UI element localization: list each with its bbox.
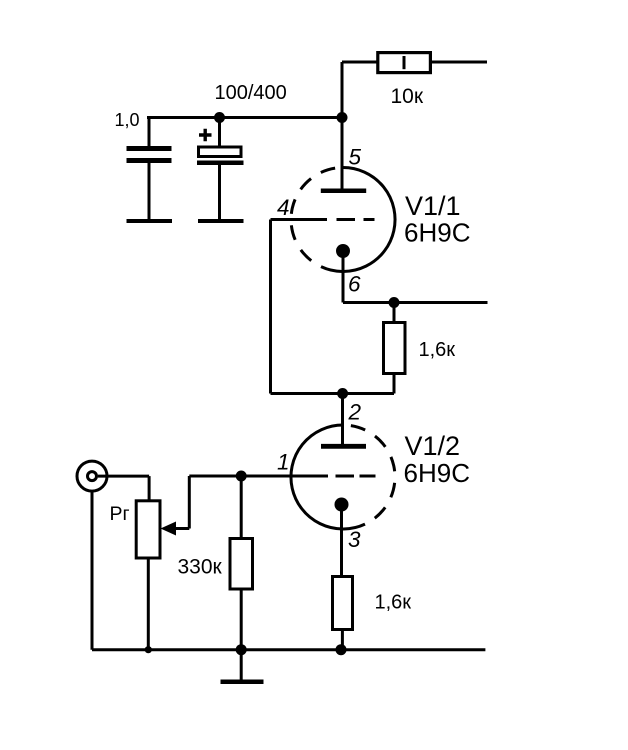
wire anode stem V1/1 pin 5 (341, 118, 344, 191)
node cathode bus / R2 (389, 297, 400, 308)
svg-text:1,0: 1,0 (115, 110, 140, 130)
tube V1/1 6Н9С (277, 145, 470, 297)
wire C2 top lead (218, 118, 221, 149)
svg-text:6Н9С: 6Н9С (404, 218, 470, 248)
wire R2 top lead (393, 303, 396, 323)
capacitor C2 100/400 electrolytic (197, 82, 287, 223)
wire grid-1 horizontal (189, 475, 328, 478)
wire 10k left lead (342, 61, 378, 64)
svg-text:3: 3 (348, 527, 361, 552)
svg-text:1,6к: 1,6к (375, 592, 412, 614)
node grid-1 / R3 (236, 471, 247, 482)
wire wiper horizontal (174, 527, 189, 530)
capacitor C1 1,0 (115, 110, 173, 223)
svg-text:2: 2 (348, 400, 362, 425)
node top bus / anode riser (337, 112, 348, 123)
resistor R4 1,6к (333, 577, 412, 630)
node ground / pot (145, 646, 152, 653)
tube V1/2 6Н9С (277, 400, 470, 553)
wire 10k right lead (431, 61, 488, 64)
svg-text:Рг: Рг (110, 503, 130, 525)
wire R3 top lead (240, 476, 243, 539)
svg-text:5: 5 (349, 145, 362, 170)
input connector (77, 461, 107, 491)
wire C1 top lead (148, 118, 151, 147)
node top bus / C2 (214, 112, 225, 123)
wire pot top lead (148, 476, 151, 501)
wire interstage horizontal (271, 392, 395, 395)
wire grid-4 horizontal (271, 218, 328, 221)
wire anode stem V1/2 pin 2 (341, 394, 344, 446)
wire ground bus (92, 648, 485, 651)
resistor R2 1,6к (384, 323, 456, 374)
wire R2 bottom lead (393, 374, 396, 394)
svg-text:330к: 330к (178, 556, 223, 579)
wire C1 bottom lead (148, 163, 151, 222)
wire wiper riser (188, 476, 191, 529)
svg-text:100/400: 100/400 (215, 82, 287, 104)
svg-text:1,6к: 1,6к (419, 339, 456, 361)
resistor 10к (378, 53, 431, 108)
svg-text:V1/2: V1/2 (405, 431, 461, 461)
node ground / R3 (236, 644, 247, 655)
wire C2 bottom lead (218, 164, 221, 221)
node ground / R4 (336, 644, 347, 655)
wire connector down (91, 491, 94, 650)
svg-text:6: 6 (348, 272, 361, 297)
svg-text:1: 1 (277, 450, 290, 475)
wire R4 bottom lead (341, 630, 344, 650)
wire cathode stem V1/2 pin 3 (340, 505, 343, 577)
wire cathode stem V1/1 pin 6 (342, 251, 345, 303)
wire ground stub (240, 650, 243, 680)
node interstage / anode V1/2 (337, 388, 348, 399)
wire top bus (147, 116, 342, 119)
svg-text:V1/1: V1/1 (405, 191, 461, 221)
potentiometer Рг (110, 501, 177, 558)
svg-text:4: 4 (277, 195, 290, 220)
ground (221, 680, 264, 685)
svg-text:6Н9С: 6Н9С (404, 458, 470, 488)
wire connector to pot (98, 475, 149, 478)
svg-text:10к: 10к (391, 85, 424, 108)
wire cathode bus V1/1 (343, 301, 488, 304)
wire grid-4 riser (269, 220, 272, 394)
wire riser to 10k (341, 62, 344, 118)
wire pot bottom lead (147, 558, 150, 650)
resistor R3 330к (178, 539, 253, 590)
wire R3 bottom lead (240, 589, 243, 650)
